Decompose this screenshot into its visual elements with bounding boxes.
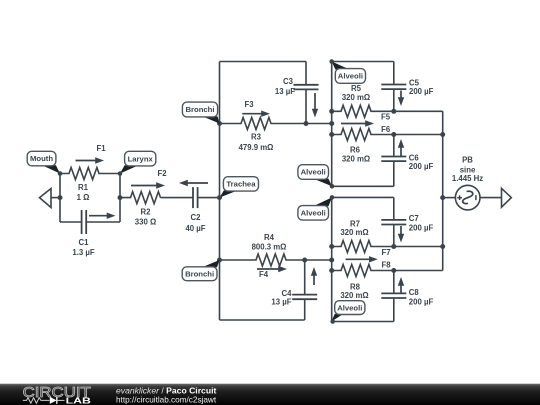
wire top block bottom <box>332 185 394 187</box>
label R2 value <box>135 207 156 226</box>
svg-text:Bronchi: Bronchi <box>185 105 214 114</box>
svg-text:Alveoli: Alveoli <box>337 303 362 312</box>
wire bottom block left vertical <box>331 197 333 321</box>
node label Alveoli bottom <box>332 301 365 322</box>
svg-text:F5: F5 <box>381 112 391 121</box>
wire bottom rect bottom <box>220 319 305 321</box>
capacitor C3 <box>294 62 319 124</box>
svg-text:320 mΩ: 320 mΩ <box>342 93 370 102</box>
node junction larynx-R2 <box>118 195 123 200</box>
svg-text:320 mΩ: 320 mΩ <box>340 291 368 300</box>
node junction C6-R6 <box>391 132 396 137</box>
node junction R5 left <box>329 109 334 114</box>
svg-text:200 µF: 200 µF <box>409 87 434 96</box>
capacitor C4 <box>292 260 317 320</box>
label R7 value <box>340 220 368 238</box>
voltage source PB <box>455 185 480 210</box>
node junction trachea <box>217 195 222 200</box>
node junction C8-R8 <box>391 268 396 273</box>
wire top block left vertical <box>331 62 333 187</box>
node label Alveoli midbot <box>298 197 332 220</box>
svg-text:Alveoli: Alveoli <box>301 209 326 218</box>
svg-text:C2: C2 <box>191 213 202 222</box>
node label Bronchi bottom <box>182 260 219 281</box>
label PB sine 1.445 Hz <box>452 155 483 183</box>
label C4 value <box>271 289 292 306</box>
capacitor C1 <box>60 210 120 234</box>
label R8 value <box>340 283 368 300</box>
current arrow at C5 <box>398 91 404 107</box>
resistor R5 <box>332 105 443 117</box>
svg-text:F3: F3 <box>244 100 254 109</box>
svg-text:R4: R4 <box>264 233 275 242</box>
current arrow at C8 <box>398 277 404 293</box>
svg-text:C1: C1 <box>79 238 90 247</box>
label C3 value <box>275 77 295 96</box>
node junction C5-R5 <box>391 109 396 114</box>
label C2 value <box>185 213 205 233</box>
svg-text:R3: R3 <box>251 133 262 142</box>
svg-text:C3: C3 <box>283 77 294 86</box>
svg-text:13 µF: 13 µF <box>271 297 291 306</box>
svg-text:200 µF: 200 µF <box>409 162 434 171</box>
svg-text:800.3 mΩ: 800.3 mΩ <box>252 243 287 252</box>
node label Trachea <box>220 177 259 198</box>
ground left <box>40 189 61 208</box>
current arrow F4 <box>257 266 287 279</box>
current arrow at C1 <box>89 213 116 219</box>
capacitor C5 <box>381 62 406 112</box>
wire larynx vertical <box>119 174 121 223</box>
node junction R7 right <box>440 244 445 249</box>
node junction bottom block bl corner <box>330 319 335 324</box>
node junction R7 left <box>329 244 334 249</box>
resistor R7 <box>332 241 443 253</box>
node junction trachea-R4 <box>217 258 222 263</box>
svg-text:F7: F7 <box>381 248 390 257</box>
wire mouth left vertical <box>59 174 61 223</box>
node junction R6 left <box>329 132 334 137</box>
node junction bottom block corner <box>330 195 335 200</box>
svg-text:200 µF: 200 µF <box>409 298 434 307</box>
svg-text:C7: C7 <box>409 214 419 223</box>
node junction C3-R3 <box>304 121 309 126</box>
svg-text:R2: R2 <box>141 207 152 216</box>
resistor R6 <box>332 129 443 141</box>
svg-text:F4: F4 <box>259 270 269 279</box>
svg-text:evanklicker / Paco Circuit: evanklicker / Paco Circuit <box>116 386 216 396</box>
current arrow at C4 <box>311 267 317 285</box>
label C6 value <box>409 154 434 172</box>
wire source left lead <box>443 197 456 199</box>
svg-text:320 mΩ: 320 mΩ <box>342 155 370 164</box>
wire right vertical <box>442 111 444 270</box>
resistor R8 <box>332 265 443 277</box>
svg-text:Bronchi: Bronchi <box>185 269 214 278</box>
wire top block top <box>332 61 394 63</box>
node junction larynx top <box>118 171 123 176</box>
svg-text:F6: F6 <box>381 125 391 134</box>
resistor R3 <box>220 118 332 130</box>
node junction source tap <box>440 195 445 200</box>
svg-text:R1: R1 <box>78 183 89 192</box>
node label Mouth <box>27 151 60 173</box>
svg-text:Trachea: Trachea <box>226 180 256 189</box>
node junction trachea-R3 <box>217 121 222 126</box>
svg-text:13 µF: 13 µF <box>275 87 295 96</box>
node junction R8 left <box>329 268 334 273</box>
svg-text:Mouth: Mouth <box>30 154 53 163</box>
svg-text:R6: R6 <box>350 146 361 155</box>
node label Alveoli midtop <box>298 165 332 187</box>
svg-text:http://circuitlab.com/c2sjawt: http://circuitlab.com/c2sjawt <box>116 395 217 404</box>
node junction C7-R7 <box>391 244 396 249</box>
node junction C4-R4 <box>302 258 307 263</box>
svg-text:F8: F8 <box>381 260 391 269</box>
svg-text:1 Ω: 1 Ω <box>77 193 90 202</box>
wire main vertical trachea <box>219 62 221 321</box>
svg-text:1.445 Hz: 1.445 Hz <box>452 174 483 183</box>
capacitor C7 <box>381 197 406 246</box>
label R4 value <box>252 233 287 252</box>
node label Alveoli topright <box>332 62 366 84</box>
node label Bronchi top <box>182 102 219 123</box>
wire bottom block bottom <box>332 321 394 323</box>
node junction top block bl corner <box>330 184 335 189</box>
svg-text:LAB: LAB <box>66 396 92 405</box>
svg-text:Alveoli: Alveoli <box>301 168 326 177</box>
current arrow F1 <box>76 144 107 164</box>
svg-text:C8: C8 <box>409 288 420 297</box>
svg-text:40 µF: 40 µF <box>185 224 205 233</box>
current arrow F5 F6 <box>341 112 391 134</box>
capacitor C2 <box>161 187 220 208</box>
label R1 value <box>77 183 90 202</box>
label C8 value <box>409 288 434 307</box>
svg-text:F2: F2 <box>157 169 167 178</box>
node label Larynx <box>120 151 156 173</box>
capacitor C6 <box>381 135 406 187</box>
current arrow at C3 <box>312 93 318 118</box>
current arrow at C2 <box>179 180 208 186</box>
svg-text:1.3 µF: 1.3 µF <box>72 248 94 257</box>
current arrow F2 <box>131 169 167 189</box>
ground right <box>502 188 512 207</box>
svg-text:330 Ω: 330 Ω <box>135 217 156 226</box>
svg-text:320 mΩ: 320 mΩ <box>340 228 368 237</box>
svg-text:F1: F1 <box>96 144 106 153</box>
svg-text:PB: PB <box>462 155 473 164</box>
node junction R6 right <box>440 132 445 137</box>
label R3 value <box>239 133 274 153</box>
current arrow at C6 <box>398 139 404 156</box>
label R6 value <box>342 146 370 164</box>
label C1 value <box>72 238 94 257</box>
label C7 value <box>409 214 434 233</box>
svg-text:200 µF: 200 µF <box>409 224 434 233</box>
label C5 value <box>409 79 434 97</box>
wire top rect top <box>220 61 307 63</box>
wire bottom block top <box>332 196 394 198</box>
resistor R1 <box>60 168 120 180</box>
node junction mouth-ground <box>58 195 63 200</box>
wire source right lead <box>480 197 502 199</box>
label R5 value <box>342 84 370 102</box>
svg-text:479.9 mΩ: 479.9 mΩ <box>239 143 274 152</box>
svg-text:Larynx: Larynx <box>128 154 154 163</box>
capacitor C8 <box>381 271 406 322</box>
current arrow F7 F8 <box>346 248 392 269</box>
current arrow at C7 <box>398 226 404 243</box>
node junction top block corner <box>329 59 334 64</box>
node junction mouth top <box>58 171 63 176</box>
svg-text:R5: R5 <box>351 84 362 93</box>
resistor R2 <box>120 192 161 204</box>
node junction R3 right <box>329 121 334 126</box>
current arrow F3 <box>242 100 270 117</box>
resistor R4 <box>220 254 332 266</box>
svg-text:sine: sine <box>460 165 476 174</box>
svg-text:Alveoli: Alveoli <box>338 72 363 81</box>
node junction R4 right <box>329 258 334 263</box>
footer CircuitLab bar <box>0 384 540 405</box>
